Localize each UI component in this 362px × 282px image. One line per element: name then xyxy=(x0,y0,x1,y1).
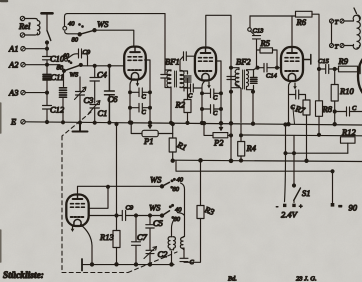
svg-text:R12: R12 xyxy=(341,127,356,137)
svg-text:C13: C13 xyxy=(253,28,265,35)
RC rung 1 (tube1) xyxy=(130,88,150,97)
coil L1 (twin) xyxy=(168,237,170,250)
capacitor C5 xyxy=(146,216,154,250)
svg-text:C7: C7 xyxy=(137,232,148,242)
tube V3 xyxy=(281,47,303,81)
wire V3 anode to R6 xyxy=(292,16,296,47)
svg-text:C14: C14 xyxy=(266,73,278,80)
wire A2 xyxy=(25,64,60,66)
capacitor C3 (variable, arrow) xyxy=(76,77,85,122)
wire antenna stem xyxy=(46,14,48,31)
svg-text:C5: C5 xyxy=(153,218,163,228)
wire main bus (E rail) xyxy=(25,122,362,125)
BF2 bottom rail xyxy=(231,92,253,124)
wire P2 right lead xyxy=(228,134,231,136)
svg-text:P1: P1 xyxy=(143,136,153,146)
node padder bus xyxy=(62,121,65,124)
svg-text:C: C xyxy=(190,259,195,266)
svg-text:80: 80 xyxy=(173,186,180,193)
switch WS (osc upper) xyxy=(160,185,163,188)
BF1 primary winding xyxy=(167,70,171,88)
wire V2 right screen xyxy=(216,61,221,93)
svg-text:C: C xyxy=(142,94,147,101)
BF2 core xyxy=(243,70,245,89)
BF1 secondary trimmer xyxy=(180,71,191,88)
BF2 primary xyxy=(231,68,239,88)
node cathode bus xyxy=(128,121,131,124)
resistor R7 xyxy=(303,100,310,115)
capacitor C15 xyxy=(319,65,335,74)
svg-text:Rel: Rel xyxy=(18,21,31,31)
node A1 xyxy=(46,47,49,50)
wire WS to tube1 anode xyxy=(95,30,134,47)
svg-text:C15: C15 xyxy=(318,58,330,65)
node A2 xyxy=(46,63,49,66)
RC rung 2 (tube2) xyxy=(202,105,221,114)
capacitor cathode V2 xyxy=(184,84,202,92)
svg-text:S1: S1 xyxy=(302,188,311,198)
tube V5 (edge) xyxy=(358,55,362,97)
resistor R1 xyxy=(172,124,174,161)
capacitor C osc xyxy=(180,248,188,262)
svg-text:R10: R10 xyxy=(339,86,354,96)
resistor R5 xyxy=(257,49,261,51)
wire V2 cathode rail xyxy=(202,81,206,123)
node A3 xyxy=(46,91,49,94)
wire V4 cathode xyxy=(81,225,93,265)
node C15 xyxy=(318,68,321,71)
BF2 secondary xyxy=(247,71,254,90)
capacitor C7 xyxy=(132,216,141,265)
svg-text:A3: A3 xyxy=(8,88,18,98)
coil L2 xyxy=(180,236,184,249)
bottom bus xyxy=(82,264,174,266)
node C6 top xyxy=(108,64,111,67)
resistor R6 xyxy=(296,11,313,17)
terminals T (phones) xyxy=(330,19,334,23)
capacitor C12 xyxy=(43,93,52,122)
AGC arrow xyxy=(293,109,295,125)
wire top HT line xyxy=(67,13,165,15)
BF2 secondary trimmer xyxy=(253,70,255,92)
svg-text:C: C xyxy=(188,93,193,100)
wire HT to R6 xyxy=(250,15,292,17)
svg-text:90: 90 xyxy=(349,203,358,213)
svg-text:R13: R13 xyxy=(99,232,114,242)
padder trimmer below switch xyxy=(62,72,65,122)
svg-text:R5: R5 xyxy=(260,38,270,48)
resistor R13 xyxy=(116,216,118,231)
wire 40 contact to coil L2 xyxy=(178,213,185,216)
svg-text:WS: WS xyxy=(70,72,79,79)
wire V3 grid right, cap bar xyxy=(303,55,311,65)
wire A1 xyxy=(25,48,47,50)
output coil right edge xyxy=(344,20,354,46)
wire grid line to tube1 xyxy=(95,65,124,67)
terminal 90V xyxy=(332,171,334,203)
node screen bus xyxy=(148,121,151,124)
capacitor C10 xyxy=(43,49,52,65)
svg-text:40: 40 xyxy=(177,177,184,184)
switch blade WS top xyxy=(80,30,95,34)
svg-text:23 J. G.: 23 J. G. xyxy=(296,276,317,282)
switch WS (osc) xyxy=(160,214,163,217)
wire screen rail x231 xyxy=(230,68,232,161)
wire to tube3 grid xyxy=(277,67,282,69)
svg-text:C9: C9 xyxy=(126,205,134,212)
capacitor C6 xyxy=(105,66,115,123)
node C4 top xyxy=(93,64,96,67)
ground xyxy=(79,121,82,124)
capacitor C1 (variable, arrow) xyxy=(90,105,99,123)
svg-text:C: C xyxy=(213,110,218,117)
potentiometer P2 xyxy=(219,93,222,130)
wire R4 top stub xyxy=(240,89,242,136)
wire bias line lower xyxy=(176,161,333,172)
wire V4 grid feedback xyxy=(89,187,109,209)
wire A3 xyxy=(25,92,47,94)
svg-text:T: T xyxy=(335,44,339,51)
svg-text:R2: R2 xyxy=(175,100,186,110)
svg-text:A2: A2 xyxy=(8,60,19,70)
node BF2 sec top xyxy=(256,66,259,69)
svg-text:80: 80 xyxy=(174,216,181,223)
svg-text:C: C xyxy=(213,95,218,102)
node C1 bus xyxy=(93,121,96,124)
capacitor C11 (trimmer hatched) xyxy=(46,65,48,93)
svg-text:P2: P2 xyxy=(213,138,224,148)
switch blade (antenna) xyxy=(47,31,51,41)
svg-text:WS: WS xyxy=(149,203,161,213)
wire 80 contact to coil L1 xyxy=(172,220,175,237)
wire V2 anode rect xyxy=(206,15,231,67)
capacitor C9 (osc) xyxy=(117,211,137,221)
wire 40 contact to L2 rail xyxy=(181,183,185,236)
svg-text:Bd.: Bd. xyxy=(228,276,237,282)
wire R6 right down xyxy=(312,14,319,69)
wire V4 anode xyxy=(78,186,163,193)
svg-text:R4: R4 xyxy=(246,143,257,153)
capacitor cathode V3 xyxy=(289,90,306,100)
wire to osc switch xyxy=(136,215,162,217)
svg-text:40: 40 xyxy=(68,21,75,28)
band switch loop (osc coil select) xyxy=(65,14,68,26)
wire P1 left lead xyxy=(131,123,142,134)
wire heater feed xyxy=(286,152,348,154)
capacitor C14 xyxy=(258,64,278,73)
RC rung 2 (tube1) xyxy=(130,103,150,112)
svg-text:C: C xyxy=(142,109,147,116)
resistor R4 xyxy=(240,135,242,142)
tube V1 xyxy=(124,47,146,80)
wire A1 column top xyxy=(46,41,48,49)
svg-text:C4: C4 xyxy=(97,70,108,80)
tube V4 (oscillator) xyxy=(66,195,88,227)
wire bus 3 (heater rail) xyxy=(241,134,362,137)
svg-text:R9: R9 xyxy=(338,56,349,66)
wire tube1 cathode rail xyxy=(130,79,134,123)
edge marks xyxy=(0,103,2,262)
capacitor C2 (variable) xyxy=(146,250,154,264)
svg-text:-: - xyxy=(276,204,278,211)
BF1 secondary winding xyxy=(180,71,184,88)
svg-text:C: C xyxy=(352,105,357,112)
svg-text:=: = xyxy=(338,204,342,211)
wire P2 left lead xyxy=(204,123,213,135)
wire tube1 right (screen) xyxy=(145,60,150,122)
wire rail x116 xyxy=(116,124,118,216)
svg-text:WS: WS xyxy=(150,175,162,185)
svg-text:2.4V: 2.4V xyxy=(281,210,299,220)
svg-text:T: T xyxy=(335,19,339,26)
tube V2 xyxy=(195,48,216,81)
resistor R3 xyxy=(199,159,202,162)
BF1 core xyxy=(175,71,177,87)
capacitor C13 xyxy=(249,16,251,28)
battery 2.4V + lead xyxy=(285,125,286,202)
capacitor grid V2 xyxy=(184,52,196,61)
svg-text:+: + xyxy=(299,204,303,211)
svg-text:R8: R8 xyxy=(322,104,333,114)
capacitor C4 xyxy=(94,66,96,103)
resistor R10 xyxy=(334,69,336,85)
svg-text:C6: C6 xyxy=(108,94,119,104)
svg-text:A1: A1 xyxy=(8,44,18,54)
resistor R9 xyxy=(335,68,339,70)
battery terminals xyxy=(283,204,286,207)
svg-text:E: E xyxy=(10,117,17,127)
relay Rel terminal top xyxy=(20,16,24,20)
capacitor C (right) xyxy=(335,107,362,116)
RC rung 1 (tube2) xyxy=(202,89,221,98)
resistor R2 xyxy=(187,88,189,123)
svg-text:WS: WS xyxy=(97,19,109,29)
node C12 bus xyxy=(46,121,49,124)
svg-text:BF1: BF1 xyxy=(165,57,180,67)
antenna bar xyxy=(42,12,53,15)
svg-text:Stückliste:: Stückliste: xyxy=(3,270,44,280)
svg-text:C11: C11 xyxy=(51,72,65,82)
node antenna column xyxy=(46,41,49,44)
wire P1 right lead to R1 xyxy=(158,133,173,135)
wire V4 grid2 xyxy=(89,215,117,217)
capacitor output xyxy=(359,65,361,74)
wire BF1 sec top to grid cap xyxy=(180,56,184,71)
relay Rel coil xyxy=(25,19,38,36)
wire BF1 primary bottom to bus xyxy=(170,88,172,123)
svg-text:C1: C1 xyxy=(98,108,108,118)
dashed gang link xyxy=(62,112,177,273)
BF2 parallel capacitor xyxy=(227,77,235,80)
wire V3 cathode xyxy=(289,81,293,124)
svg-text:R6: R6 xyxy=(296,17,307,27)
relay Rel terminal bottom xyxy=(20,33,24,37)
resistor R8 xyxy=(318,69,320,101)
potentiometer P1 xyxy=(148,124,151,128)
svg-text:80: 80 xyxy=(72,37,79,44)
wire bus 2 (grid bias rail) xyxy=(173,160,362,161)
svg-text:C3: C3 xyxy=(84,95,94,105)
switch S1 xyxy=(293,136,295,185)
svg-text:BF2: BF2 xyxy=(236,57,251,67)
